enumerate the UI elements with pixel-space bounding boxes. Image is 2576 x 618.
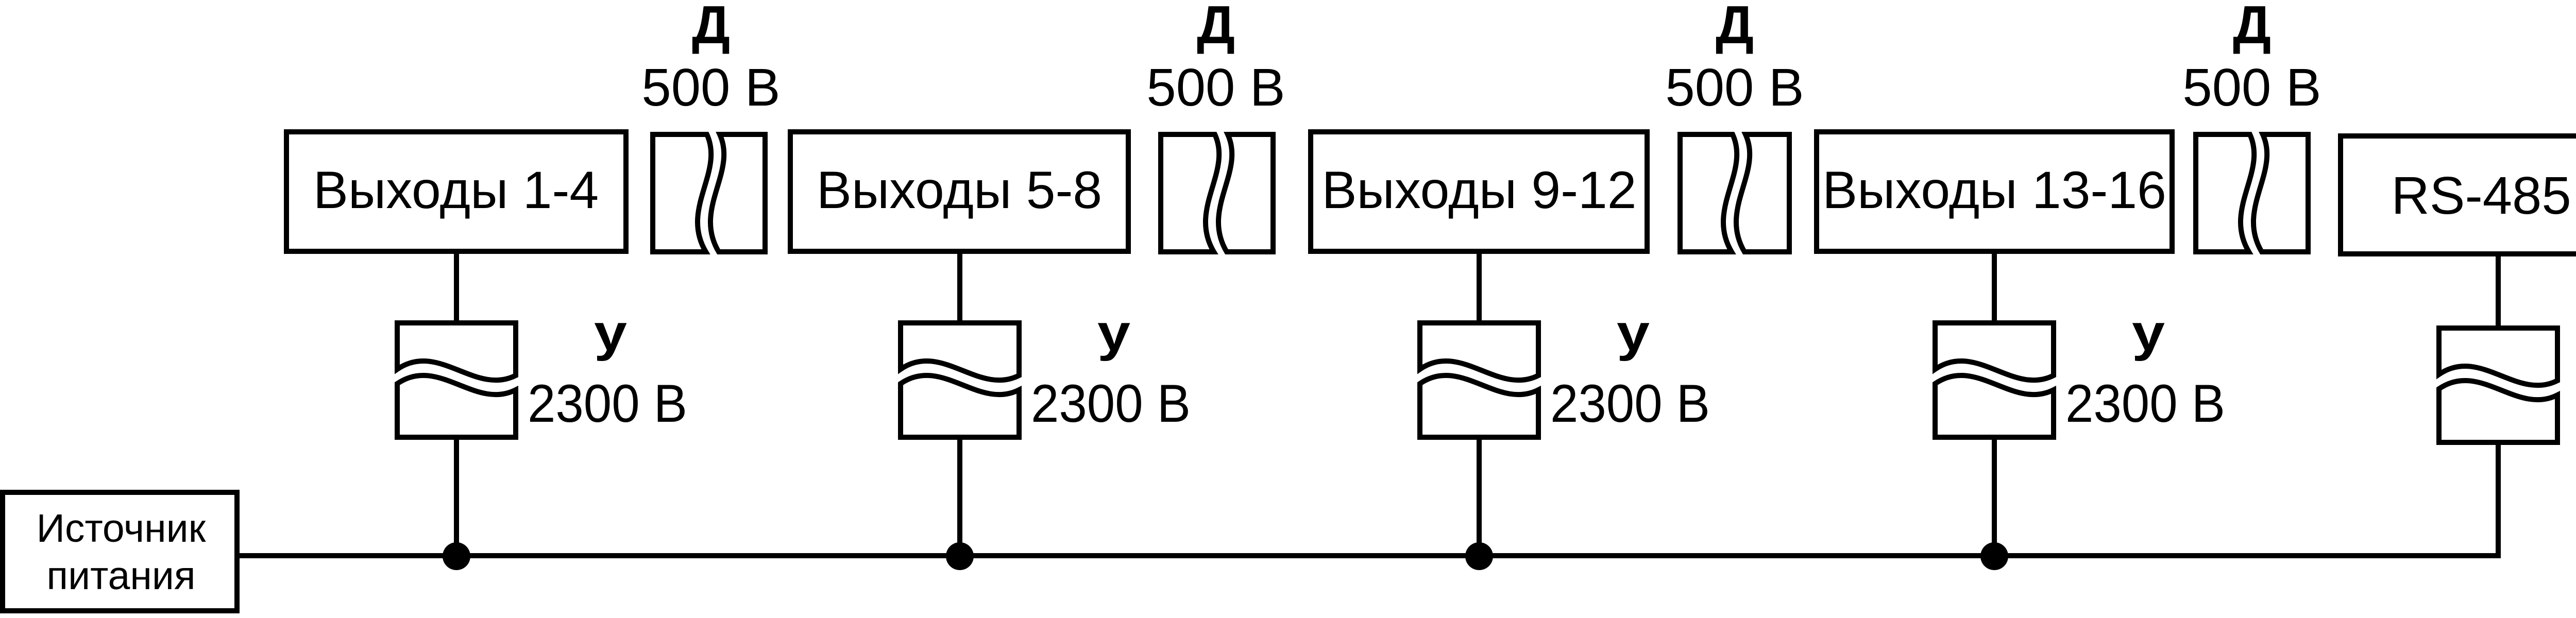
- svg-text:500 В: 500 В: [1665, 58, 1804, 117]
- svg-text:2300 В: 2300 В: [1550, 374, 1710, 434]
- svg-text:Д: Д: [1716, 0, 1754, 55]
- wire У1 to bus: [454, 437, 459, 556]
- wire box4 to barrier У4: [1992, 251, 1997, 325]
- wire box1 to barrier У1: [454, 251, 459, 325]
- wire У3 to bus: [1477, 437, 1482, 556]
- svg-text:RS-485: RS-485: [2391, 166, 2571, 225]
- svg-text:Источник: Источник: [37, 506, 207, 551]
- block U3 Выходы 9-12: [1311, 132, 1647, 251]
- power supply block Источник питания: [3, 492, 237, 611]
- wire box2 to barrier У2: [957, 251, 962, 325]
- svg-text:Выходы 1-4: Выходы 1-4: [313, 161, 599, 219]
- block U5 RS-485: [2341, 136, 2576, 254]
- svg-text:у: у: [1097, 304, 1130, 362]
- junction dot 2: [946, 542, 974, 570]
- svg-text:2300 В: 2300 В: [528, 374, 687, 434]
- wire У4 to bus: [1992, 437, 1997, 556]
- block U4 Выходы 13-16: [1817, 132, 2172, 251]
- isolation barrier У4: [1935, 323, 2054, 437]
- junction dot 1: [443, 542, 470, 570]
- isolation barrier Д2: [1161, 134, 1273, 252]
- isolation barrier У2: [901, 323, 1019, 437]
- isolation barrier У1: [397, 323, 516, 437]
- svg-text:500 В: 500 В: [1146, 58, 1285, 117]
- block U2 Выходы 5-8: [790, 132, 1128, 251]
- junction dot 3: [1465, 542, 1493, 570]
- svg-text:Выходы 5-8: Выходы 5-8: [817, 161, 1102, 219]
- isolation barrier У5: [2439, 328, 2557, 442]
- svg-text:500 В: 500 В: [641, 58, 780, 117]
- svg-text:у: у: [2132, 304, 2165, 362]
- wire У2 to bus: [957, 437, 962, 556]
- svg-text:питания: питания: [46, 554, 195, 598]
- svg-text:2300 В: 2300 В: [2065, 374, 2225, 434]
- svg-text:500 В: 500 В: [2182, 58, 2321, 117]
- svg-text:Выходы 13-16: Выходы 13-16: [1822, 161, 2166, 219]
- wire box3 to barrier У3: [1477, 251, 1482, 325]
- svg-text:у: у: [594, 304, 627, 362]
- block U1 Выходы 1-4: [286, 132, 626, 251]
- wire box5 to barrier У5: [2496, 254, 2501, 331]
- svg-text:Выходы 9-12: Выходы 9-12: [1321, 161, 1636, 219]
- svg-text:Д: Д: [2233, 0, 2271, 55]
- junction dot 4: [1980, 542, 2008, 570]
- isolation barrier Д4: [2196, 134, 2308, 252]
- svg-text:Д: Д: [692, 0, 730, 55]
- isolation barrier У3: [1420, 323, 1538, 437]
- svg-text:Д: Д: [1197, 0, 1235, 55]
- isolation barrier Д1: [653, 134, 765, 252]
- svg-text:у: у: [1617, 304, 1650, 362]
- isolation barrier Д3: [1680, 134, 1789, 252]
- power bus wire: [237, 442, 2498, 556]
- svg-text:2300 В: 2300 В: [1031, 374, 1191, 434]
